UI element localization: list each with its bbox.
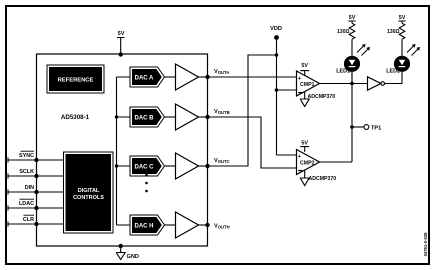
bus junction dots (115, 115, 118, 118)
svg-text:DAC B: DAC B (135, 116, 155, 122)
svg-text:AD5308-1: AD5308-1 (61, 114, 90, 121)
DAC H block (130, 215, 165, 235)
pin SYNC (8, 158, 64, 163)
DAC C block (130, 156, 165, 176)
resistor R1 (349, 23, 355, 56)
wire VOUTB to CMP2- (210, 117, 297, 168)
svg-text:DAC C: DAC C (135, 165, 155, 171)
junction dots VDD (275, 53, 279, 57)
LED2 arrows (407, 45, 419, 56)
LED1 chain 5V (348, 21, 355, 23)
ellipsis dots (145, 174, 148, 177)
svg-text:DAC A: DAC A (135, 76, 154, 82)
output terminal H (205, 223, 209, 227)
svg-text:VOUTA: VOUTA (214, 69, 229, 75)
svg-text:5V: 5V (301, 141, 308, 147)
svg-text:130Ω: 130Ω (387, 29, 399, 35)
buffer bubble (381, 82, 385, 86)
ground chip (116, 246, 125, 260)
svg-text:LDAC: LDAC (19, 201, 34, 207)
LED1 (344, 56, 360, 72)
svg-text:REFERENCE: REFERENCE (58, 78, 94, 84)
wired-or vertical (320, 72, 353, 162)
CMP2 5V (300, 147, 309, 152)
TP1 (352, 126, 364, 128)
CMP1 ground (300, 92, 309, 107)
CMP1 triangle (297, 71, 320, 96)
buffer A triangle (176, 64, 199, 90)
buffer B wire (165, 116, 176, 118)
CMP1 output wire (320, 83, 368, 85)
svg-text:04761-0-038: 04761-0-038 (423, 232, 428, 256)
svg-text:TP1: TP1 (371, 126, 381, 132)
chip AD5308 outline (37, 54, 208, 246)
svg-text:CONTROLS: CONTROLS (73, 195, 104, 201)
svg-text:130Ω: 130Ω (337, 29, 349, 35)
output terminal B (205, 115, 209, 119)
svg-text:VDD: VDD (270, 26, 282, 32)
internal reference bus (117, 77, 131, 225)
wire VOUTA to CMP1+ (210, 76, 297, 78)
svg-text:ADCMP370: ADCMP370 (308, 94, 336, 100)
svg-text:ADCMP370: ADCMP370 (309, 176, 337, 182)
svg-text:SCLK: SCLK (19, 169, 34, 175)
svg-text:CLR: CLR (23, 217, 34, 223)
buffer C triangle (176, 153, 199, 179)
buffer C wire (165, 165, 176, 167)
svg-text:DAC H: DAC H (135, 224, 154, 230)
buffer triangle right (368, 77, 381, 90)
pin CLR (8, 222, 64, 227)
svg-text:5V: 5V (118, 31, 125, 37)
output terminal A (205, 75, 209, 79)
svg-text:LED1: LED1 (336, 69, 350, 75)
svg-text:DIGITAL: DIGITAL (78, 188, 100, 194)
svg-text:DIN: DIN (25, 185, 34, 191)
INTERFACE LOGIC box (64, 152, 114, 233)
svg-text:5V: 5V (399, 15, 406, 21)
DAC B block (130, 107, 165, 127)
svg-text:5V: 5V (301, 63, 308, 69)
DAC A block (130, 67, 165, 87)
pin SCLK (8, 174, 64, 179)
buffer out wire to LED2 (385, 72, 403, 84)
LED2 chain 5V (398, 21, 405, 23)
LED1 arrows (357, 45, 369, 56)
svg-text:VOUTB: VOUTB (214, 109, 230, 115)
VDD terminal (274, 35, 279, 40)
svg-text:GND: GND (127, 254, 139, 260)
output terminal C (205, 164, 209, 168)
buffer H triangle (176, 212, 199, 238)
wire VOUTC up to VDD branch (210, 55, 277, 166)
resistor R2 (399, 23, 405, 56)
buffer A wire (165, 76, 176, 78)
REFERENCE box (47, 65, 104, 93)
svg-text:CMP2: CMP2 (300, 161, 315, 167)
svg-text:VOUTC: VOUTC (214, 158, 230, 164)
buffer B triangle (176, 104, 199, 130)
CMP2 ground (300, 170, 309, 185)
wire LED1 to output node (351, 72, 353, 84)
svg-text:CMP1: CMP1 (300, 82, 315, 88)
buffer H wire (165, 224, 176, 226)
pin LDAC (8, 206, 64, 211)
pin DIN (8, 190, 64, 195)
LED2 (394, 56, 410, 72)
chip VDD pin circle (119, 52, 123, 56)
svg-text:VOUTH: VOUTH (214, 224, 230, 230)
CMP2 triangle (297, 150, 320, 175)
5V supply bar chip (117, 38, 125, 55)
svg-text:SYNC: SYNC (19, 153, 34, 159)
svg-text:LED2: LED2 (386, 69, 400, 75)
CMP1 5V (300, 71, 309, 76)
VDD line down (277, 40, 297, 155)
svg-text:5V: 5V (349, 15, 356, 21)
